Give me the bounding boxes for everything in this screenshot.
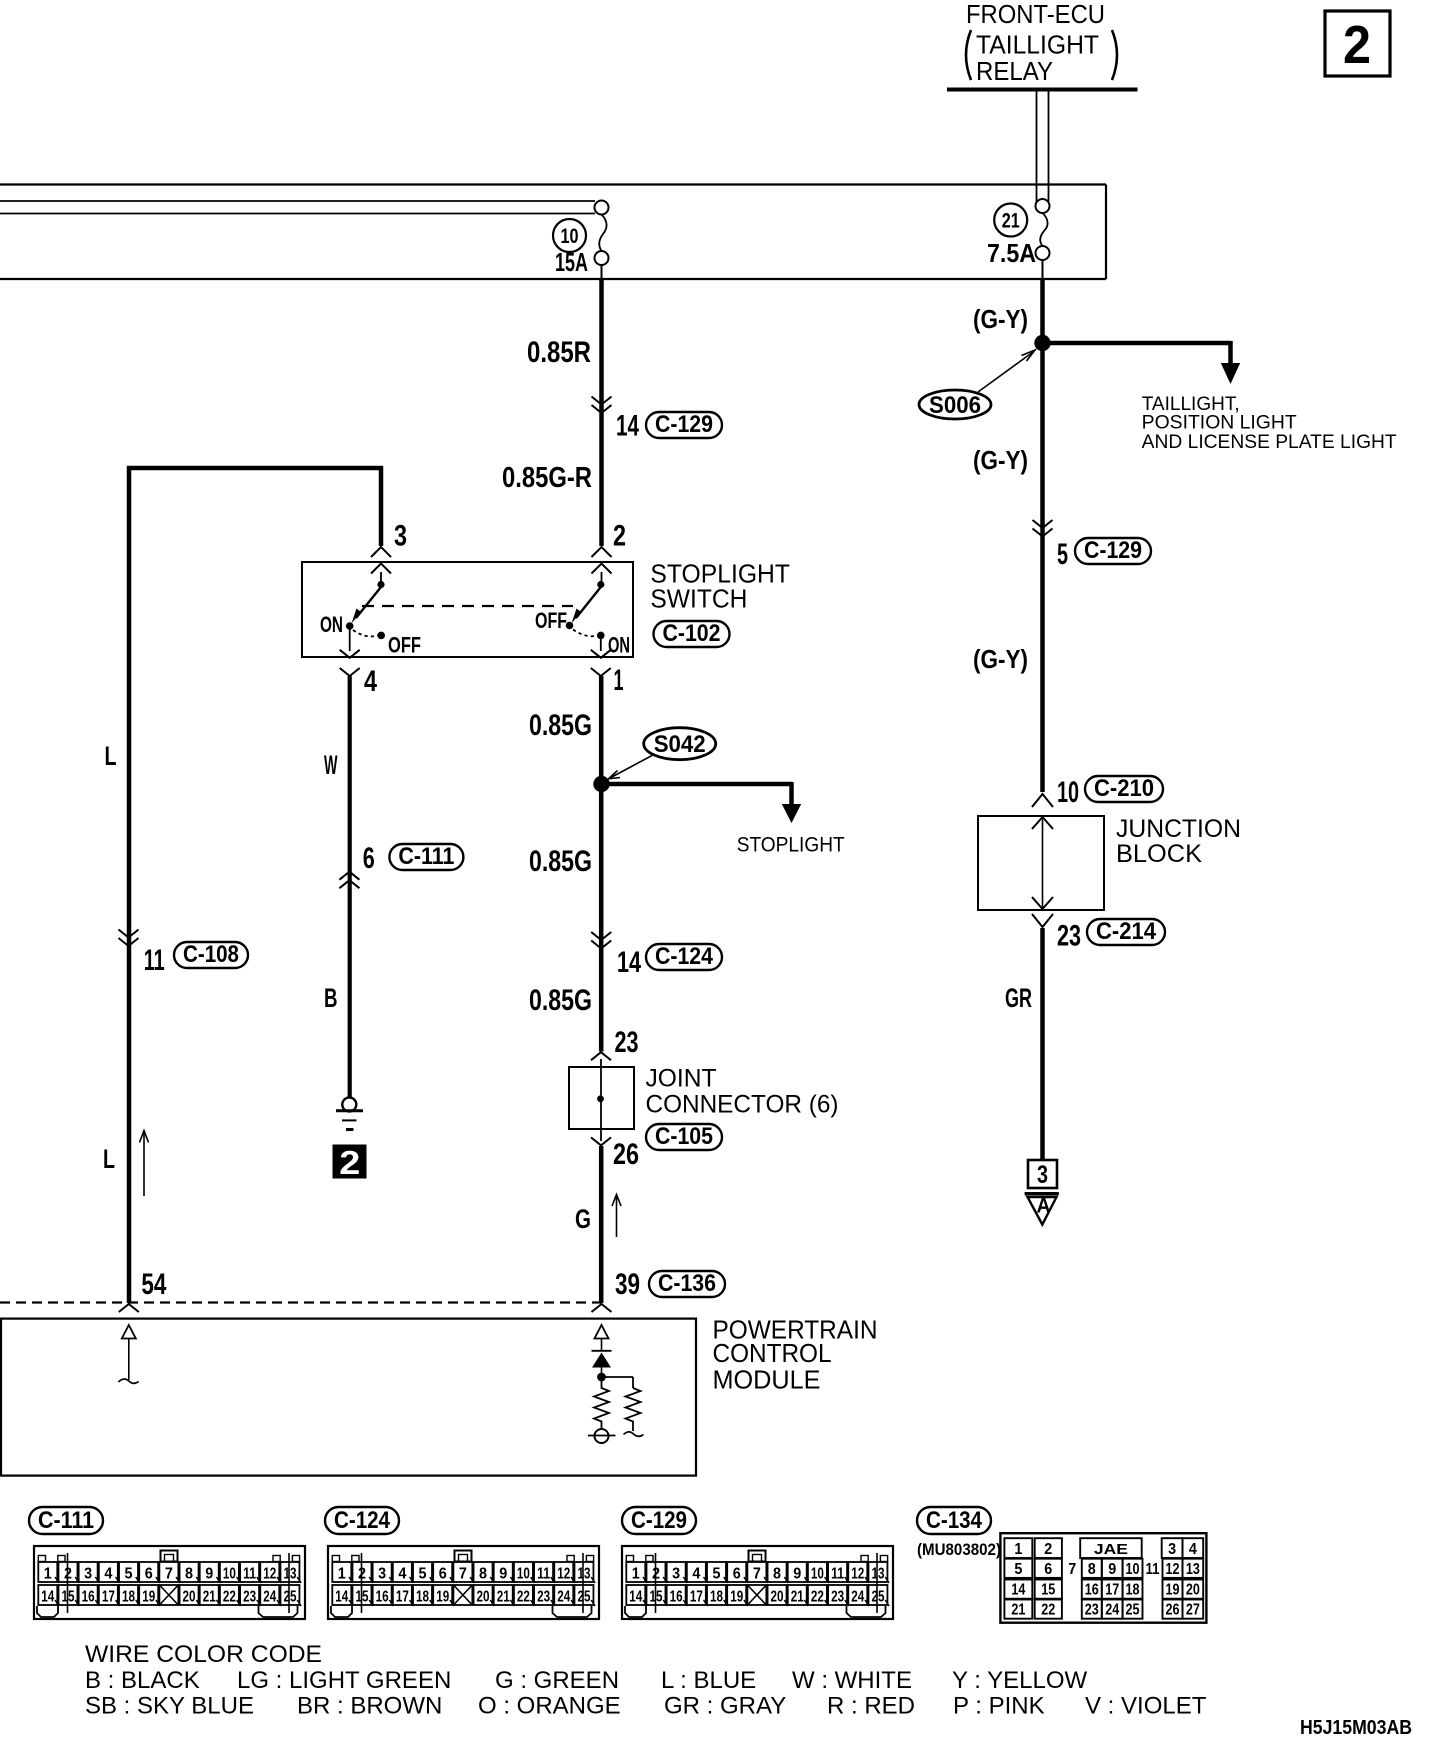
svg-text:RELAY: RELAY	[976, 56, 1053, 86]
svg-text:20: 20	[477, 1589, 490, 1606]
PCM internal circuit at pin 39: clamp diode	[592, 1325, 612, 1373]
svg-text:2: 2	[358, 1566, 366, 1583]
svg-text:7: 7	[459, 1566, 467, 1583]
ground reference box 2	[333, 1144, 366, 1181]
svg-text:25: 25	[871, 1589, 884, 1606]
svg-text:11: 11	[144, 944, 165, 977]
svg-text:11: 11	[831, 1566, 844, 1583]
svg-text:26: 26	[1166, 1602, 1180, 1619]
svg-text:4: 4	[364, 665, 377, 698]
svg-text:G: G	[575, 1204, 591, 1234]
wire color label 0.85G (upper)	[529, 709, 592, 742]
svg-text:2: 2	[1044, 1541, 1052, 1558]
svg-text:C-111: C-111	[38, 1507, 94, 1534]
wire branch to taillight with arrow	[1043, 341, 1241, 384]
switch left pole: pivot, blade and contacts	[346, 572, 385, 639]
wire color label 0.85G (middle)	[529, 845, 592, 878]
svg-text:6: 6	[439, 1566, 447, 1583]
svg-text:14: 14	[629, 1589, 642, 1606]
svg-text:22: 22	[223, 1589, 236, 1606]
node S006 junction dot	[1034, 335, 1050, 351]
pin 3 label	[394, 520, 407, 553]
svg-text:3: 3	[84, 1566, 92, 1583]
switch pin 4 wire to ground (W/B)	[340, 629, 360, 1097]
svg-text:3: 3	[672, 1566, 680, 1583]
svg-text:5: 5	[125, 1566, 133, 1583]
svg-text:2: 2	[652, 1566, 660, 1583]
svg-text:1: 1	[632, 1566, 640, 1583]
svg-text:13: 13	[1186, 1561, 1200, 1578]
svg-text:W : WHITE: W : WHITE	[792, 1667, 912, 1694]
svg-text:23: 23	[831, 1589, 844, 1606]
svg-text:22: 22	[1041, 1602, 1055, 1619]
wire G-Y from fuse 21 to junction block	[1042, 259, 1044, 792]
wire color label GR	[1005, 983, 1032, 1013]
stoplight switch box C-102	[302, 562, 633, 657]
connector stadium C-105	[646, 1123, 722, 1150]
svg-text:12: 12	[1166, 1561, 1180, 1578]
svg-text:8: 8	[185, 1566, 193, 1583]
fuse box (dedicated fuse block outline)	[0, 185, 1106, 280]
pin 5 label	[1057, 538, 1068, 571]
svg-text:20: 20	[1186, 1582, 1200, 1599]
pin 14 label	[616, 410, 639, 443]
connector stadium C-108	[174, 941, 248, 968]
wire color code row 2	[85, 1693, 1207, 1720]
bus bar under FRONT-ECU label	[947, 88, 1138, 92]
switch right pole: pivot, blade and contacts	[566, 572, 605, 639]
wire color code row 1	[85, 1667, 1088, 1694]
resistor R (left, to sensor ground)	[594, 1381, 609, 1429]
svg-text:8: 8	[479, 1566, 487, 1583]
powertrain control module box	[1, 1319, 696, 1476]
svg-text:24: 24	[263, 1589, 276, 1606]
wire GR from junction block to page reference 3	[1040, 928, 1045, 1160]
svg-text:1: 1	[44, 1566, 52, 1583]
svg-text:W: W	[324, 750, 338, 780]
svg-text:19: 19	[1166, 1582, 1180, 1599]
svg-text:SB : SKY BLUE: SB : SKY BLUE	[85, 1693, 254, 1720]
svg-text:22: 22	[517, 1589, 530, 1606]
pin 23 label (C-214)	[1057, 920, 1081, 953]
svg-text:23: 23	[243, 1589, 256, 1606]
wire color label G-Y (2)	[973, 445, 1028, 475]
svg-text:C-136: C-136	[658, 1270, 716, 1297]
svg-text:16: 16	[1085, 1582, 1099, 1599]
connector stadium C-136	[649, 1270, 725, 1297]
pin 11 label	[144, 944, 165, 977]
svg-text:POSITION LIGHT: POSITION LIGHT	[1142, 413, 1297, 434]
svg-text:1: 1	[1014, 1541, 1022, 1558]
pin 6 label	[363, 842, 375, 875]
in-line connector chevrons 14 C-129	[592, 397, 612, 414]
svg-text:7: 7	[165, 1566, 173, 1583]
svg-text:23: 23	[537, 1589, 550, 1606]
svg-text:S042: S042	[654, 731, 706, 758]
svg-text:C-129: C-129	[1084, 537, 1142, 564]
svg-text:(G-Y): (G-Y)	[973, 304, 1028, 334]
wire L branch: PCM pin 54 up and over to switch pin 3	[127, 466, 383, 1303]
fuse 21 7.5A	[987, 199, 1050, 268]
svg-text:C-124: C-124	[334, 1507, 391, 1534]
PCM internal junction dot	[597, 1373, 606, 1382]
connector C-134 part number	[917, 1540, 1001, 1559]
svg-text:14: 14	[41, 1589, 54, 1606]
svg-text:23: 23	[1085, 1602, 1099, 1619]
stoplight switch label text	[650, 558, 790, 613]
connector face view C-134	[1000, 1533, 1206, 1623]
svg-text:STOPLIGHT: STOPLIGHT	[737, 834, 845, 857]
wire color label G-Y (1)	[973, 304, 1028, 334]
svg-text:10: 10	[1126, 1561, 1140, 1578]
svg-text:19: 19	[142, 1589, 155, 1606]
svg-text:(G-Y): (G-Y)	[973, 445, 1028, 475]
svg-text:17: 17	[102, 1589, 115, 1606]
svg-text:17: 17	[396, 1589, 409, 1606]
PCM pin 39 chevron	[592, 1304, 612, 1312]
switch right OFF label	[535, 608, 567, 633]
svg-text:C-111: C-111	[398, 843, 454, 870]
taillight destination label	[1142, 394, 1397, 453]
svg-text:13: 13	[577, 1566, 590, 1583]
svg-text:BLOCK: BLOCK	[1116, 840, 1202, 868]
pin 4 label	[364, 665, 377, 698]
svg-text:9: 9	[793, 1566, 801, 1583]
svg-text:C-214: C-214	[1096, 918, 1157, 945]
svg-text:O : ORANGE: O : ORANGE	[478, 1693, 621, 1720]
svg-text:C-210: C-210	[1094, 775, 1154, 802]
svg-text:6: 6	[145, 1566, 153, 1583]
connector stadium C-134 (pinout)	[917, 1507, 991, 1534]
frame label 2 (page number box)	[1325, 11, 1390, 76]
connector stadium C-210	[1085, 775, 1163, 802]
connector stadium C-214	[1087, 918, 1165, 945]
in-line connector chevrons 5 C-129	[1033, 520, 1053, 537]
joint connector label text	[646, 1064, 839, 1118]
svg-text:8: 8	[1088, 1561, 1096, 1578]
wire color label B	[324, 983, 338, 1013]
svg-text:17: 17	[1105, 1582, 1119, 1599]
svg-text:5: 5	[419, 1566, 427, 1583]
svg-text:TAILLIGHT: TAILLIGHT	[976, 30, 1099, 60]
connector stadium C-111 (pinout)	[29, 1507, 103, 1534]
svg-text:25: 25	[283, 1589, 296, 1606]
svg-text:C-105: C-105	[655, 1123, 713, 1150]
svg-text:12: 12	[851, 1566, 864, 1583]
svg-text:OFF: OFF	[535, 608, 567, 633]
powertrain control module label	[713, 1315, 878, 1395]
svg-text:6: 6	[1044, 1561, 1052, 1578]
pin 2 label	[613, 520, 626, 553]
svg-text:C-134: C-134	[926, 1507, 983, 1534]
svg-text:P : PINK: P : PINK	[953, 1693, 1045, 1720]
wire color label G	[575, 1204, 591, 1234]
svg-text:21: 21	[203, 1589, 216, 1606]
svg-text:R : RED: R : RED	[827, 1693, 915, 1720]
svg-text:GR: GR	[1005, 983, 1032, 1013]
svg-text:3: 3	[1168, 1541, 1176, 1558]
connector face view C-111	[34, 1546, 305, 1619]
connector stadium C-111	[389, 843, 463, 870]
svg-text:S006: S006	[929, 392, 981, 419]
pin 10 label	[1057, 776, 1079, 809]
svg-text:B: B	[324, 983, 338, 1013]
svg-text:15A: 15A	[555, 247, 588, 277]
svg-text:0.85R: 0.85R	[527, 336, 591, 369]
svg-text:C-102: C-102	[663, 620, 721, 647]
svg-text:GR : GRAY: GR : GRAY	[664, 1693, 786, 1720]
svg-text:G : GREEN: G : GREEN	[495, 1667, 619, 1694]
svg-text:A: A	[1037, 1195, 1051, 1218]
wire color code title	[85, 1641, 322, 1668]
svg-text:26: 26	[613, 1138, 639, 1171]
current direction arrow (G wire)	[612, 1195, 621, 1238]
pin 1 label	[614, 664, 624, 697]
svg-text:54: 54	[141, 1268, 166, 1301]
svg-text:BR : BROWN: BR : BROWN	[297, 1693, 442, 1720]
switch left ON label	[320, 612, 343, 637]
svg-text:(G-Y): (G-Y)	[973, 644, 1028, 674]
svg-text:9: 9	[499, 1566, 507, 1583]
pin 23 label (C-105)	[615, 1026, 639, 1059]
svg-text:C-124: C-124	[655, 943, 714, 970]
harness boundary dashed line	[0, 1301, 602, 1303]
svg-text:10: 10	[517, 1566, 530, 1583]
svg-text:3: 3	[378, 1566, 386, 1583]
svg-text:L: L	[103, 1144, 115, 1174]
svg-text:25: 25	[577, 1589, 590, 1606]
svg-text:21: 21	[1002, 210, 1020, 233]
wire 0.85G from S042 to joint connector	[599, 784, 604, 1052]
in-line connector chevrons 14 C-124	[591, 932, 611, 949]
svg-text:16: 16	[82, 1589, 95, 1606]
wire color label 0.85G-R	[502, 462, 592, 494]
switch pin 1 wire down to S042	[591, 639, 611, 784]
switch pin 3 chevrons	[371, 547, 391, 574]
wire 0.85R from fuse 10 to stoplight switch pin 2	[601, 264, 603, 546]
svg-text:AND LICENSE PLATE LIGHT: AND LICENSE PLATE LIGHT	[1142, 432, 1397, 453]
svg-text:22: 22	[811, 1589, 824, 1606]
svg-text:14: 14	[1011, 1582, 1025, 1599]
connector face view C-124	[328, 1546, 599, 1619]
svg-text:5: 5	[1014, 1561, 1022, 1578]
svg-text:7: 7	[753, 1566, 761, 1583]
svg-text:JOINT: JOINT	[646, 1064, 717, 1092]
svg-text:B : BLACK: B : BLACK	[85, 1667, 200, 1694]
svg-text:2: 2	[1343, 15, 1371, 75]
svg-text:20: 20	[183, 1589, 196, 1606]
switch gang dashed link	[362, 605, 573, 607]
svg-text:1: 1	[614, 664, 624, 697]
svg-text:10: 10	[561, 225, 579, 248]
svg-text:13: 13	[283, 1566, 296, 1583]
wire color label 0.85G (lower)	[529, 984, 592, 1017]
connector stadium C-124 (pinout)	[325, 1507, 399, 1534]
svg-text:4: 4	[1189, 1541, 1197, 1558]
wire color label W	[324, 750, 338, 780]
svg-text:ON: ON	[320, 612, 343, 637]
switch pin 2 chevrons	[592, 547, 612, 574]
off-page triangle A	[1025, 1192, 1059, 1225]
svg-text:V : VIOLET: V : VIOLET	[1085, 1693, 1207, 1720]
page reference box 3	[1028, 1160, 1057, 1189]
switch right ON label	[608, 633, 630, 658]
svg-text:11: 11	[537, 1566, 550, 1583]
terminal circle (left leg)	[588, 1429, 616, 1443]
wire, double line from FRONT-ECU to fuse 21	[1037, 91, 1049, 203]
svg-text:C-129: C-129	[631, 1507, 687, 1534]
svg-text:0.85G: 0.85G	[529, 845, 592, 878]
svg-text:LG : LIGHT GREEN: LG : LIGHT GREEN	[237, 1667, 451, 1694]
PCM pin 54 chevron	[119, 1304, 139, 1312]
connector stadium C-129 (pinout)	[622, 1507, 696, 1534]
in-line connector chevrons 6 C-111	[339, 872, 359, 889]
svg-text:18: 18	[710, 1589, 723, 1606]
svg-text:21: 21	[791, 1589, 804, 1606]
pin 26 label	[613, 1138, 639, 1171]
svg-text:0.85G-R: 0.85G-R	[502, 462, 592, 494]
wire branch to stoplight with arrow	[602, 782, 802, 823]
svg-text:4: 4	[398, 1566, 406, 1583]
svg-text:L : BLUE: L : BLUE	[661, 1667, 756, 1694]
current direction arrow (L wire)	[140, 1131, 149, 1197]
svg-text:0.85G: 0.85G	[529, 709, 592, 742]
continuation hook (right leg)	[624, 1432, 644, 1437]
svg-text:18: 18	[416, 1589, 429, 1606]
svg-text:21: 21	[497, 1589, 510, 1606]
svg-text:Y : YELLOW: Y : YELLOW	[952, 1667, 1088, 1694]
junction block box	[978, 794, 1104, 927]
svg-text:18: 18	[1126, 1582, 1140, 1599]
ground symbol (body ground)	[336, 1098, 363, 1130]
svg-text:19: 19	[436, 1589, 449, 1606]
resistor R (right)	[626, 1388, 641, 1431]
svg-text:6: 6	[363, 842, 375, 875]
svg-text:3: 3	[394, 520, 407, 553]
wire G from joint connector to PCM pin 39	[599, 1146, 604, 1303]
svg-text:4: 4	[104, 1566, 112, 1583]
svg-text:9: 9	[1108, 1561, 1116, 1578]
svg-text:39: 39	[615, 1268, 640, 1301]
bus wire, double feed line into fuse 10	[0, 201, 595, 214]
svg-text:18: 18	[122, 1589, 135, 1606]
connector face view C-129	[622, 1546, 893, 1619]
svg-text:10: 10	[223, 1566, 236, 1583]
svg-text:17: 17	[690, 1589, 703, 1606]
svg-text:4: 4	[692, 1566, 700, 1583]
svg-text:16: 16	[376, 1589, 389, 1606]
svg-text:15: 15	[355, 1589, 368, 1606]
svg-text:2: 2	[613, 520, 626, 553]
svg-text:(MU803802): (MU803802)	[917, 1540, 1001, 1559]
stoplight destination label	[737, 834, 845, 857]
svg-text:1: 1	[338, 1566, 346, 1583]
wire color label G-Y (3)	[973, 644, 1028, 674]
svg-text:15: 15	[649, 1589, 662, 1606]
svg-text:6: 6	[733, 1566, 741, 1583]
svg-text:0.85G: 0.85G	[529, 984, 592, 1017]
wire color label L (upper)	[105, 741, 117, 771]
pin 39 label	[615, 1268, 640, 1301]
svg-text:10: 10	[811, 1566, 824, 1583]
svg-text:ON: ON	[608, 633, 630, 658]
svg-text:CONNECTOR (6): CONNECTOR (6)	[646, 1091, 839, 1119]
pin 14 label (C-124)	[617, 946, 641, 979]
svg-text:C-129: C-129	[655, 411, 713, 438]
svg-text:14: 14	[616, 410, 639, 443]
svg-text:11: 11	[1146, 1561, 1160, 1578]
svg-text:13: 13	[871, 1566, 884, 1583]
svg-text:SWITCH: SWITCH	[650, 583, 747, 613]
svg-text:27: 27	[1186, 1602, 1200, 1619]
PCM internal wire to pull-up resistor	[602, 1377, 634, 1388]
drawing number H5J15M03AB	[1300, 1717, 1412, 1739]
svg-text:20: 20	[771, 1589, 784, 1606]
connector stadium C-102	[654, 620, 730, 647]
svg-text:23: 23	[615, 1026, 639, 1059]
svg-text:24: 24	[1105, 1602, 1119, 1619]
svg-text:H5J15M03AB: H5J15M03AB	[1300, 1717, 1412, 1739]
svg-text:L: L	[105, 741, 117, 771]
connector stadium C-129 (right)	[1075, 537, 1151, 564]
connector stadium C-124	[646, 943, 722, 970]
svg-text:FRONT-ECU: FRONT-ECU	[966, 0, 1105, 29]
svg-text:8: 8	[773, 1566, 781, 1583]
svg-text:WIRE COLOR CODE: WIRE COLOR CODE	[85, 1641, 322, 1668]
svg-text:7.5A: 7.5A	[987, 238, 1036, 268]
svg-text:5: 5	[1057, 538, 1068, 571]
node S042 junction dot	[593, 776, 609, 792]
svg-text:15: 15	[1041, 1582, 1055, 1599]
svg-text:19: 19	[730, 1589, 743, 1606]
wire color label 0.85R	[527, 336, 591, 369]
svg-text:3: 3	[1037, 1161, 1048, 1189]
fuse 10 15A	[553, 201, 609, 278]
svg-text:14: 14	[617, 946, 641, 979]
svg-text:25: 25	[1126, 1602, 1140, 1619]
splice S006 label	[919, 350, 1035, 419]
svg-text:5: 5	[713, 1566, 721, 1583]
svg-text:24: 24	[557, 1589, 570, 1606]
pin 54 label	[141, 1268, 166, 1301]
svg-text:21: 21	[1011, 1602, 1025, 1619]
svg-text:24: 24	[851, 1589, 864, 1606]
svg-text:15: 15	[61, 1589, 74, 1606]
FRONT-ECU (TAILLIGHT RELAY) source label	[966, 0, 1117, 86]
connector stadium C-129	[646, 411, 722, 438]
PCM internal arrow at pin 54	[118, 1325, 138, 1383]
junction block label text	[1116, 815, 1241, 868]
svg-text:C-108: C-108	[183, 941, 239, 968]
svg-text:JUNCTION: JUNCTION	[1116, 815, 1241, 843]
svg-text:11: 11	[243, 1566, 256, 1583]
joint connector (6) C-105 box	[569, 1052, 634, 1145]
svg-text:16: 16	[670, 1589, 683, 1606]
svg-text:12: 12	[263, 1566, 276, 1583]
svg-text:9: 9	[205, 1566, 213, 1583]
svg-text:10: 10	[1057, 776, 1079, 809]
svg-text:OFF: OFF	[388, 633, 421, 658]
svg-text:MODULE: MODULE	[713, 1365, 821, 1395]
splice S042 label	[609, 728, 716, 779]
svg-text:JAE: JAE	[1094, 1541, 1128, 1558]
wire color label L (lower)	[103, 1144, 115, 1174]
svg-text:7: 7	[1068, 1561, 1076, 1578]
switch left OFF label	[388, 633, 421, 658]
svg-text:12: 12	[557, 1566, 570, 1583]
svg-text:2: 2	[64, 1566, 72, 1583]
in-line connector chevrons 11 C-108 (L wire)	[119, 930, 139, 947]
